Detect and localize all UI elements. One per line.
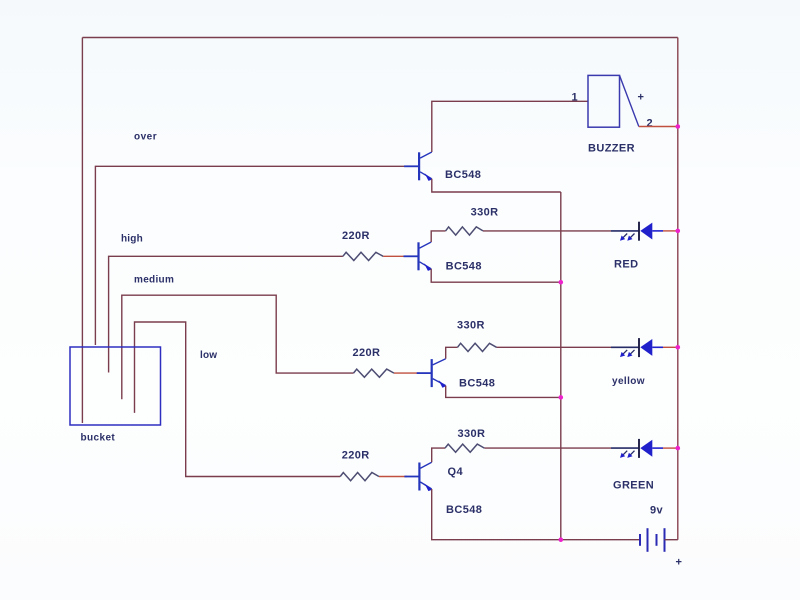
svg-text:9v: 9v xyxy=(650,505,664,517)
wire low: probe riser, jog, run to R3 220R xyxy=(135,322,341,477)
wire Q3 emitter to emitter bus xyxy=(446,386,561,398)
LED D3 GREEN xyxy=(611,439,678,458)
svg-text:medium: medium xyxy=(134,275,174,286)
wire top supply rail xyxy=(82,37,677,39)
svg-text:GREEN: GREEN xyxy=(613,480,654,492)
wire R5 330R to LED D2 xyxy=(497,346,612,348)
resistor R5 330R (yellow) xyxy=(458,343,497,351)
transistor Q2 BC548 (high/RED) xyxy=(404,242,432,271)
svg-text:BC548: BC548 xyxy=(459,377,495,389)
resistor R3 220R (low) xyxy=(340,473,379,481)
wire over: probe riser and run to Q1 base xyxy=(95,166,407,345)
wire R6 330R to LED D3 xyxy=(484,447,611,449)
resistor R2 220R (medium) xyxy=(354,369,395,377)
svg-text:1: 1 xyxy=(572,92,579,104)
wire emitter bus vertical xyxy=(560,192,562,540)
junction emitter bus / bottom wire xyxy=(559,537,564,542)
wire Q2 emitter to emitter bus xyxy=(431,269,561,282)
svg-text:BC548: BC548 xyxy=(446,504,482,516)
wire Q1 emitter to emitter bus xyxy=(432,179,561,192)
svg-text:bucket: bucket xyxy=(81,433,116,444)
svg-text:220R: 220R xyxy=(342,230,370,242)
svg-text:330R: 330R xyxy=(458,428,486,440)
svg-text:over: over xyxy=(134,132,157,143)
wire battery plus to right rail xyxy=(665,539,678,541)
svg-text:+: + xyxy=(676,557,683,569)
LED D2 yellow xyxy=(611,338,678,357)
svg-text:low: low xyxy=(200,350,217,361)
svg-text:220R: 220R xyxy=(342,449,370,461)
transistor Q1 BC548 (over) xyxy=(404,152,432,181)
svg-text:RED: RED xyxy=(614,259,638,271)
junction D3 / right rail xyxy=(676,446,681,451)
svg-text:high: high xyxy=(121,234,143,245)
junction D1 / right rail xyxy=(676,229,681,234)
wire R3 220R to Q4 base xyxy=(379,476,407,478)
wire R4 330R to LED D1 xyxy=(483,230,611,232)
wire buzzer pin 2 to right rail xyxy=(639,126,678,128)
junction buzzer pin 2 / right rail xyxy=(676,124,681,129)
wire medium: probe riser, jog, run to R2 220R xyxy=(122,295,354,399)
svg-text:220R: 220R xyxy=(353,347,381,359)
bucket xyxy=(70,347,161,425)
svg-text:330R: 330R xyxy=(457,319,485,331)
svg-text:yellow: yellow xyxy=(612,376,645,387)
wire R1 220R to Q2 base xyxy=(383,255,407,257)
wire Q4 emitter to battery minus xyxy=(432,489,640,540)
wire left rail / common probe into bucket xyxy=(81,38,83,424)
junction Q3 emitter / bus xyxy=(559,395,564,400)
svg-text:+: + xyxy=(638,92,645,104)
resistor R6 330R (GREEN) xyxy=(445,444,484,452)
svg-text:330R: 330R xyxy=(471,206,499,218)
svg-text:2: 2 xyxy=(647,118,654,130)
LED D1 RED xyxy=(611,222,678,241)
svg-text:BUZZER: BUZZER xyxy=(588,143,635,155)
wire right supply rail xyxy=(677,38,679,540)
resistor R4 330R (RED) xyxy=(446,227,483,235)
wire Q1 collector to buzzer pin 1 xyxy=(432,101,588,152)
transistor Q4 BC548 (low/GREEN) xyxy=(404,462,432,491)
junction D2 / right rail xyxy=(676,345,681,350)
wire R2 220R to Q3 base xyxy=(394,372,420,374)
wire Q3 collector riser to R5 330R xyxy=(446,347,458,359)
wire Q4 collector riser to R6 330R xyxy=(432,448,445,462)
wire Q2 collector riser to R4 330R xyxy=(431,231,445,242)
svg-text:Q4: Q4 xyxy=(448,466,464,478)
buzzer BZ1 xyxy=(588,75,639,127)
battery B1 9v xyxy=(640,528,665,552)
resistor R1 220R (high) xyxy=(343,252,383,260)
wire high: probe riser and run to R1 220R xyxy=(109,256,343,372)
transistor Q3 BC548 (medium/yellow) xyxy=(417,359,446,388)
junction Q2 emitter / bus xyxy=(559,280,564,285)
svg-text:BC548: BC548 xyxy=(445,169,481,181)
svg-text:BC548: BC548 xyxy=(446,261,482,273)
